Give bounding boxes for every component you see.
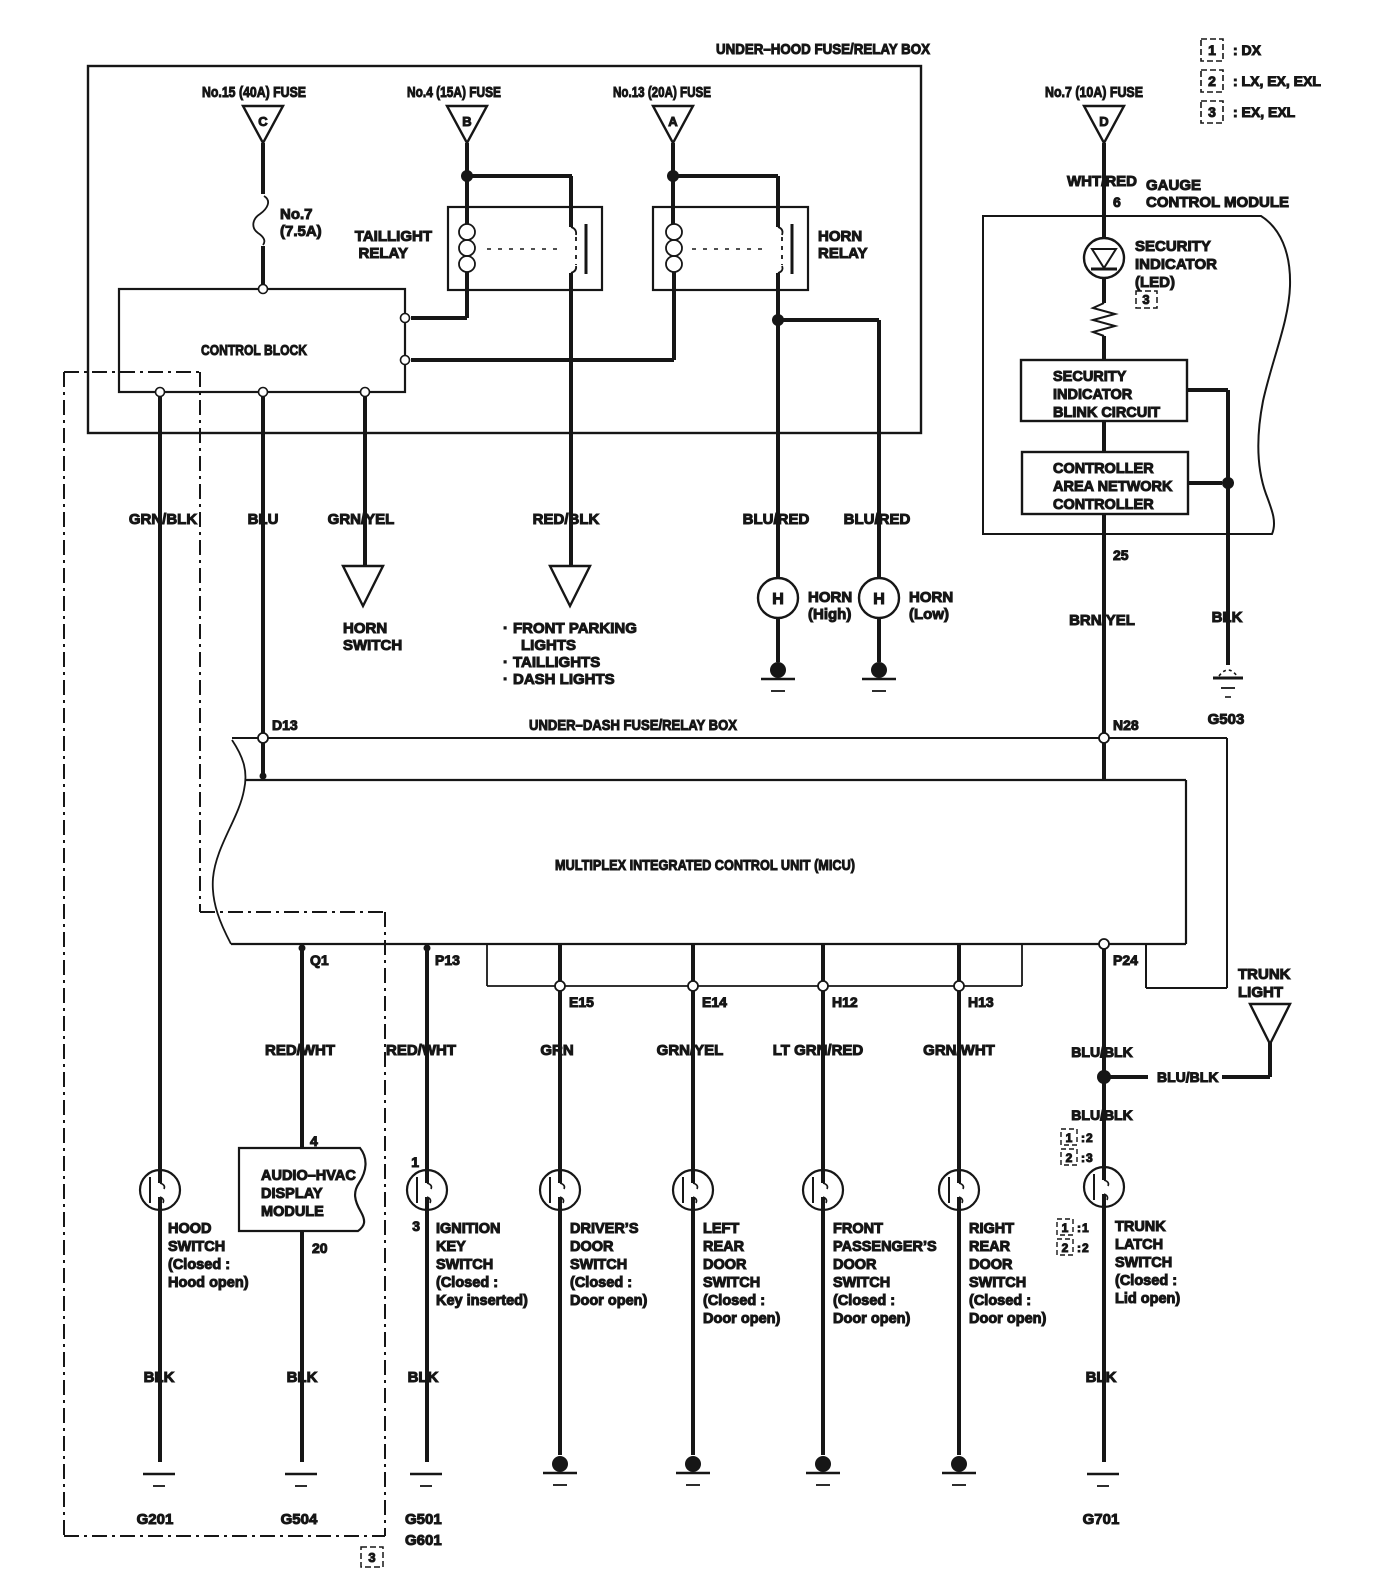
svg-text:DASH LIGHTS: DASH LIGHTS xyxy=(513,671,615,688)
svg-text:BLK: BLK xyxy=(144,1369,175,1386)
svg-text:HORN: HORN xyxy=(909,589,953,606)
front parking lights arrow xyxy=(503,566,637,688)
trunk latch switch xyxy=(1084,1167,1180,1307)
svg-text:1: 1 xyxy=(1062,1221,1069,1235)
wire e15 switch to ground xyxy=(558,1210,562,1455)
ground G201 xyxy=(137,1474,175,1528)
svg-text:2: 2 xyxy=(1208,73,1216,89)
svg-text:: 1: : 1 xyxy=(1077,1221,1089,1235)
wire BLU control block to D13 xyxy=(261,392,265,738)
wire horn relay contact BLU/RED xyxy=(776,273,780,578)
svg-text:(Low): (Low) xyxy=(909,606,949,623)
svg-text:3: 3 xyxy=(1142,292,1149,307)
svg-text:4: 4 xyxy=(310,1133,318,1149)
svg-text:SWITCH: SWITCH xyxy=(833,1275,890,1291)
svg-text:CONTROL BLOCK: CONTROL BLOCK xyxy=(201,342,307,359)
svg-text:1: 1 xyxy=(1208,42,1216,58)
resistor xyxy=(1093,303,1115,336)
svg-text:RELAY: RELAY xyxy=(818,245,867,262)
wire h12 switch to ground xyxy=(821,1210,825,1455)
svg-text:LIGHT: LIGHT xyxy=(1238,984,1283,1001)
wire CAN controller to node xyxy=(1188,481,1222,485)
svg-text:G601: G601 xyxy=(405,1532,442,1549)
svg-text:: 2: : 2 xyxy=(1081,1131,1093,1145)
svg-text:(High): (High) xyxy=(808,606,851,623)
svg-text:REAR: REAR xyxy=(969,1239,1011,1255)
svg-text:KEY: KEY xyxy=(436,1239,466,1255)
svg-text:1: 1 xyxy=(1066,1131,1073,1145)
under-dash box connector strip xyxy=(487,944,1022,986)
wire E15 to door switch xyxy=(560,944,594,1170)
svg-text:SECURITY: SECURITY xyxy=(1053,369,1127,385)
security indicator blink circuit box xyxy=(1021,360,1187,421)
svg-text:No.7: No.7 xyxy=(280,206,313,223)
wire BLU/BLK branch to trunk light xyxy=(1104,1042,1270,1077)
wire E14 to door switch xyxy=(693,944,727,1170)
svg-text:H: H xyxy=(873,591,885,608)
svg-text:No.4 (15A) FUSE: No.4 (15A) FUSE xyxy=(407,84,501,101)
svg-text:FRONT PARKING: FRONT PARKING xyxy=(513,620,637,637)
svg-text:SWITCH: SWITCH xyxy=(436,1257,493,1273)
svg-text:: DX: : DX xyxy=(1233,42,1262,58)
svg-text:(Closed :: (Closed : xyxy=(1115,1273,1177,1289)
svg-text:TRUNK: TRUNK xyxy=(1115,1219,1166,1235)
svg-text:Door open): Door open) xyxy=(833,1311,910,1327)
ground h12 door switch xyxy=(815,1456,831,1472)
wire fuse C to control block with No.7 (7.5A) fuse xyxy=(253,143,321,285)
svg-text:G501: G501 xyxy=(405,1511,442,1528)
driver&#39;s door switch xyxy=(540,1170,647,1309)
svg-text:Lid open): Lid open) xyxy=(1115,1291,1180,1307)
svg-text:Door open): Door open) xyxy=(570,1293,647,1309)
svg-text:BLK: BLK xyxy=(1086,1369,1117,1386)
svg-text:AUDIO–HVAC: AUDIO–HVAC xyxy=(261,1168,356,1184)
svg-text:IGNITION: IGNITION xyxy=(436,1221,500,1237)
svg-text:No.13 (20A) FUSE: No.13 (20A) FUSE xyxy=(613,84,711,101)
wire H12 to door switch xyxy=(823,944,858,1170)
connector H13 xyxy=(954,981,964,991)
connector H12 xyxy=(818,981,828,991)
variant tags above trunk switch xyxy=(1061,1129,1093,1165)
svg-text:N28: N28 xyxy=(1113,717,1139,733)
svg-text:P24: P24 xyxy=(1113,952,1138,968)
svg-text:·: · xyxy=(503,654,508,671)
svg-text:BLU/RED: BLU/RED xyxy=(743,511,810,528)
wire taillight relay coil to control block xyxy=(411,272,467,318)
svg-text:BLU/BLK: BLU/BLK xyxy=(1071,1044,1132,1060)
svg-text:TAILLIGHT: TAILLIGHT xyxy=(355,228,432,245)
svg-text:GRN: GRN xyxy=(540,1042,573,1059)
wire H13 to door switch xyxy=(959,944,994,1170)
left rear door switch xyxy=(673,1170,780,1327)
ground h13 door switch xyxy=(951,1456,967,1472)
svg-text:RED/BLK: RED/BLK xyxy=(533,511,600,528)
svg-text:1: 1 xyxy=(411,1154,419,1170)
svg-text:E14: E14 xyxy=(702,994,727,1010)
node fuse B junction xyxy=(461,170,473,182)
wire P24 BLU/BLK xyxy=(1104,944,1138,1167)
svg-text:BLU/BLK: BLU/BLK xyxy=(1071,1107,1132,1123)
node fuse A junction xyxy=(667,170,679,182)
svg-text:Door open): Door open) xyxy=(969,1311,1046,1327)
svg-text:DOOR: DOOR xyxy=(570,1239,614,1255)
horn (low) xyxy=(859,578,953,623)
ground G503 xyxy=(1208,670,1245,728)
svg-text:MODULE: MODULE xyxy=(261,1204,324,1220)
ground e15 door switch xyxy=(552,1456,568,1472)
svg-text:3: 3 xyxy=(412,1218,420,1234)
svg-text:LT GRN/RED: LT GRN/RED xyxy=(773,1042,864,1059)
svg-text:UNDER–DASH FUSE/RELAY BOX: UNDER–DASH FUSE/RELAY BOX xyxy=(529,717,737,734)
svg-text:D: D xyxy=(1099,114,1108,129)
svg-text:SWITCH: SWITCH xyxy=(343,637,402,654)
svg-text:LIGHTS: LIGHTS xyxy=(521,637,576,654)
connector N28 xyxy=(1099,717,1139,780)
wire LED to resistor xyxy=(1102,278,1106,303)
svg-text:: EX, EXL: : EX, EXL xyxy=(1233,104,1296,120)
wire h13 switch to ground xyxy=(957,1210,961,1455)
horn switch arrow xyxy=(343,566,402,654)
svg-text:GRN/YEL: GRN/YEL xyxy=(657,1042,724,1059)
variant tags below trunk switch xyxy=(1057,1219,1089,1255)
svg-text:Door open): Door open) xyxy=(703,1311,780,1327)
connector E15 xyxy=(555,981,565,991)
wire blink circuit to CAN node xyxy=(1187,390,1228,665)
svg-text:H12: H12 xyxy=(832,994,858,1010)
svg-text:SWITCH: SWITCH xyxy=(570,1257,627,1273)
fuse D No.7 (10A) xyxy=(1045,84,1143,143)
svg-text:HORN: HORN xyxy=(818,228,862,245)
svg-text:BRN/YEL: BRN/YEL xyxy=(1069,612,1135,629)
svg-text:RIGHT: RIGHT xyxy=(969,1221,1014,1237)
wire horn high to ground xyxy=(776,618,780,662)
wire horn relay coil to control block xyxy=(411,272,674,360)
ground horn low xyxy=(871,662,887,678)
svg-text:BLU/RED: BLU/RED xyxy=(844,511,911,528)
connector E14 xyxy=(688,981,698,991)
svg-text:(LED): (LED) xyxy=(1135,274,1175,291)
wire hood switch to G201 xyxy=(158,1210,162,1462)
horn (high) xyxy=(758,578,852,623)
svg-text:SWITCH: SWITCH xyxy=(168,1239,225,1255)
svg-text:(Closed :: (Closed : xyxy=(703,1293,765,1309)
svg-text:HORN: HORN xyxy=(808,589,852,606)
svg-text:·: · xyxy=(503,671,508,688)
front passenger&#39;s door switch xyxy=(803,1170,937,1327)
gauge control module box xyxy=(983,177,1290,534)
svg-text:(Closed :: (Closed : xyxy=(833,1293,895,1309)
svg-text:PASSENGER’S: PASSENGER’S xyxy=(833,1239,937,1255)
svg-text:UNDER–HOOD FUSE/RELAY BOX: UNDER–HOOD FUSE/RELAY BOX xyxy=(716,41,930,58)
svg-text:FRONT: FRONT xyxy=(833,1221,883,1237)
svg-text:No.15 (40A) FUSE: No.15 (40A) FUSE xyxy=(202,84,306,101)
fuse C No.15 (40A) xyxy=(202,84,306,143)
wire module to G504 xyxy=(300,1231,304,1462)
svg-text:G701: G701 xyxy=(1083,1511,1120,1528)
svg-text:: LX, EX, EXL: : LX, EX, EXL xyxy=(1233,73,1321,89)
svg-text:G503: G503 xyxy=(1208,711,1245,728)
svg-text:CONTROL MODULE: CONTROL MODULE xyxy=(1146,194,1289,211)
ground G701 xyxy=(1083,1474,1120,1528)
svg-text:: 3: : 3 xyxy=(1081,1151,1093,1165)
svg-text:RED/WHT: RED/WHT xyxy=(386,1042,456,1059)
connector P24 xyxy=(1099,939,1109,949)
node horn contact junction xyxy=(772,314,784,326)
svg-text:LEFT: LEFT xyxy=(703,1221,739,1237)
svg-text:INDICATOR: INDICATOR xyxy=(1053,387,1133,403)
svg-text:SWITCH: SWITCH xyxy=(1115,1255,1172,1271)
svg-text:MULTIPLEX INTEGRATED CONTROL U: MULTIPLEX INTEGRATED CONTROL UNIT (MICU) xyxy=(555,857,855,874)
svg-text:CONTROLLER: CONTROLLER xyxy=(1053,497,1154,513)
svg-text:DISPLAY: DISPLAY xyxy=(261,1186,323,1202)
svg-text:Q1: Q1 xyxy=(310,952,329,968)
wire BRN/YEL gauge module to N28 xyxy=(1102,514,1106,738)
svg-text:HOOD: HOOD xyxy=(168,1221,212,1237)
svg-text:LATCH: LATCH xyxy=(1115,1237,1163,1253)
svg-text:(Closed :: (Closed : xyxy=(570,1275,632,1291)
svg-text:RELAY: RELAY xyxy=(359,245,408,262)
wire e14 switch to ground xyxy=(691,1210,695,1455)
svg-text:GRN/BLK: GRN/BLK xyxy=(129,511,197,528)
ground horn high xyxy=(770,662,786,678)
svg-text:2: 2 xyxy=(1062,1241,1069,1255)
svg-text:BLK: BLK xyxy=(408,1369,439,1386)
svg-text:HORN: HORN xyxy=(343,620,387,637)
fuse A No.13 (20A) xyxy=(613,84,711,143)
svg-text:CONTROLLER: CONTROLLER xyxy=(1053,461,1154,477)
svg-text:TRUNK: TRUNK xyxy=(1238,966,1291,983)
svg-text:20: 20 xyxy=(312,1240,328,1256)
svg-text:G201: G201 xyxy=(137,1511,174,1528)
svg-text:BLK: BLK xyxy=(287,1369,318,1386)
audio-hvac display module xyxy=(239,1148,366,1231)
svg-text:DOOR: DOOR xyxy=(703,1257,747,1273)
svg-text:RED/WHT: RED/WHT xyxy=(265,1042,335,1059)
wire horn low to ground xyxy=(877,618,881,662)
wire fuse A to horn relay coil xyxy=(671,143,675,224)
svg-text:(Closed :: (Closed : xyxy=(969,1293,1031,1309)
svg-text:DRIVER’S: DRIVER’S xyxy=(570,1221,639,1237)
wire D13 stub into MICU xyxy=(260,738,267,780)
node CAN junction xyxy=(1222,477,1234,489)
svg-text:BLK: BLK xyxy=(1212,609,1243,626)
right rear door switch xyxy=(939,1170,1046,1327)
controller area network controller box xyxy=(1022,452,1188,514)
svg-text:GRN/WHT: GRN/WHT xyxy=(923,1042,995,1059)
wire branch to horn (low) xyxy=(778,320,879,578)
wire GRN/YEL control block to horn switch xyxy=(363,392,367,566)
svg-text:GAUGE: GAUGE xyxy=(1146,177,1201,194)
svg-text:25: 25 xyxy=(1113,547,1129,563)
security indicator LED xyxy=(1084,216,1217,308)
wire ignition switch to G501/G601 xyxy=(425,1210,429,1462)
svg-text:H: H xyxy=(772,591,784,608)
under-dash fuse/relay box xyxy=(232,717,1227,988)
svg-text:G504: G504 xyxy=(281,1511,318,1528)
variant tag 3 at boundary xyxy=(361,1547,383,1567)
ground G501/G601 xyxy=(405,1474,442,1549)
svg-text:No.7 (10A) FUSE: No.7 (10A) FUSE xyxy=(1045,84,1143,101)
svg-text:6: 6 xyxy=(1113,194,1121,210)
svg-text:WHT/RED: WHT/RED xyxy=(1067,173,1137,190)
svg-text:H13: H13 xyxy=(968,994,994,1010)
svg-text:(7.5A): (7.5A) xyxy=(280,223,322,240)
svg-text:BLINK CIRCUIT: BLINK CIRCUIT xyxy=(1053,405,1160,421)
svg-text:REAR: REAR xyxy=(703,1239,745,1255)
svg-text:TAILLIGHTS: TAILLIGHTS xyxy=(513,654,600,671)
connector D13 xyxy=(258,717,298,743)
control block xyxy=(119,289,405,392)
wire taillight relay contact RED/BLK xyxy=(569,273,573,566)
wire trunk latch switch to G701 xyxy=(1102,1207,1106,1462)
legend variant boxes xyxy=(1201,39,1262,61)
wire GRN/BLK control block to hood switch xyxy=(158,392,162,1170)
control block connector notches xyxy=(156,285,410,397)
svg-text:P13: P13 xyxy=(435,952,460,968)
svg-text:3: 3 xyxy=(1208,104,1216,120)
ground G504 xyxy=(281,1474,318,1528)
svg-text:: 2: : 2 xyxy=(1077,1241,1089,1255)
variant boundary dash-dot outline xyxy=(64,372,385,1536)
wire Q1 RED/WHT to audio-hvac display module xyxy=(299,944,329,1148)
wire resistor to blink circuit xyxy=(1102,336,1106,360)
svg-text:SWITCH: SWITCH xyxy=(703,1275,760,1291)
svg-text:GRN/YEL: GRN/YEL xyxy=(328,511,395,528)
svg-text:3: 3 xyxy=(368,1550,375,1565)
ground e14 door switch xyxy=(685,1456,701,1472)
svg-text:BLU/BLK: BLU/BLK xyxy=(1157,1069,1218,1085)
hood switch xyxy=(140,1170,249,1291)
svg-text:AREA NETWORK: AREA NETWORK xyxy=(1053,479,1173,495)
svg-text:SECURITY: SECURITY xyxy=(1135,238,1211,255)
svg-text:2: 2 xyxy=(1066,1151,1073,1165)
fuse B No.4 (15A) xyxy=(407,84,501,143)
wire P13 RED/WHT to ignition key switch xyxy=(424,944,461,1170)
wire fuse B to taillight relay coil xyxy=(465,143,469,224)
svg-text:A: A xyxy=(668,114,678,129)
svg-text:SWITCH: SWITCH xyxy=(969,1275,1026,1291)
horn relay xyxy=(653,207,867,290)
svg-text:Key inserted): Key inserted) xyxy=(436,1293,528,1309)
ignition key switch xyxy=(407,1170,528,1309)
svg-text:B: B xyxy=(462,114,471,129)
svg-text:INDICATOR: INDICATOR xyxy=(1135,256,1217,273)
under-hood fuse/relay box xyxy=(88,41,930,433)
svg-text:(Closed :: (Closed : xyxy=(168,1257,230,1273)
taillight relay xyxy=(355,207,602,290)
svg-text:D13: D13 xyxy=(272,717,298,733)
svg-text:DOOR: DOOR xyxy=(833,1257,877,1273)
svg-text:(Closed :: (Closed : xyxy=(436,1275,498,1291)
svg-text:·: · xyxy=(503,620,508,637)
wire fuse A junction to horn relay contact xyxy=(673,176,778,227)
svg-text:Hood open): Hood open) xyxy=(168,1275,249,1291)
multiplex integrated control unit (MICU) box xyxy=(213,740,1186,944)
svg-text:DOOR: DOOR xyxy=(969,1257,1013,1273)
trunk light arrow xyxy=(1238,966,1291,1044)
wire blink circuit to CAN controller xyxy=(1102,421,1106,452)
wire WHT/RED fuse D to gauge module xyxy=(1102,143,1106,216)
node BLU/BLK junction xyxy=(1097,1070,1111,1084)
wire fuse B junction to taillight relay contact xyxy=(467,176,572,227)
svg-text:C: C xyxy=(258,114,268,129)
svg-text:E15: E15 xyxy=(569,994,594,1010)
svg-text:BLU: BLU xyxy=(248,511,279,528)
